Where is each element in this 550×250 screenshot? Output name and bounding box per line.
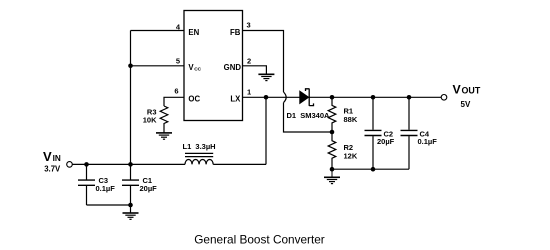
wire left vertical EN/Vcc down to VIN rail [130, 31, 132, 165]
wire EN pin4 to left vertical [131, 30, 185, 32]
svg-text:5: 5 [176, 57, 180, 66]
node junction C4 top [407, 95, 412, 100]
diode D1 triangle [300, 91, 309, 103]
wire bottom rail R2 to C2 C4 [332, 168, 409, 170]
svg-text:CC: CC [194, 66, 201, 72]
label R1 88K [344, 107, 358, 124]
diode D1 schottky cathode bar [306, 89, 314, 106]
label R3 10K [143, 108, 157, 125]
ground below R2 [324, 169, 340, 183]
node junction R2 bottom / ground [330, 167, 335, 172]
svg-text:0.1µF: 0.1µF [96, 184, 116, 193]
node junction LX/inductor [264, 95, 269, 100]
svg-text:V: V [43, 149, 52, 164]
wire VIN rail to inductor [73, 163, 186, 165]
svg-text:IN: IN [53, 154, 61, 163]
node junction C2 top [371, 95, 376, 100]
pin name Vcc [188, 63, 201, 72]
wire bottom rail C3 to C1 [87, 204, 131, 206]
svg-text:L1 3.3µH: L1 3.3µH [183, 142, 216, 151]
svg-text:OUT: OUT [462, 86, 481, 96]
wire FB pin3 to divider [243, 31, 284, 93]
svg-text:V: V [453, 83, 462, 97]
svg-text:6: 6 [174, 87, 178, 96]
terminal VOUT [441, 95, 447, 101]
terminal VIN [67, 162, 73, 168]
wire LX node down to inductor [265, 97, 267, 164]
resistor R2 [328, 132, 336, 169]
svg-text:0.1µF: 0.1µF [418, 137, 438, 146]
capacitor C4 [401, 97, 418, 169]
node junction R1/R2 midpoint [330, 130, 335, 135]
svg-text:General Boost Converter: General Boost Converter [194, 233, 325, 247]
wire OC pin6 to R3 [164, 97, 184, 106]
node junction C1 bottom / ground [128, 203, 133, 208]
label C1 20uF [140, 176, 158, 193]
svg-text:1: 1 [247, 88, 251, 97]
capacitor C2 [365, 97, 382, 169]
label VOUT 5V [453, 83, 481, 110]
node junction R1 top [330, 95, 335, 100]
resistor R3 [160, 106, 168, 133]
svg-text:5V: 5V [461, 100, 471, 109]
svg-text:12K: 12K [344, 151, 358, 160]
svg-text:OC: OC [188, 95, 200, 104]
label C4 0.1uF [418, 129, 438, 146]
wire hop over LX line [284, 92, 287, 103]
resistor R1 [328, 97, 336, 132]
svg-text:20µF: 20µF [140, 184, 158, 193]
wire inductor to LX vertical [213, 163, 266, 165]
wire LX pin1 to diode anode [243, 96, 300, 98]
ground at GND pin [258, 74, 274, 80]
wire GND pin2 [243, 66, 267, 74]
svg-text:LX: LX [230, 95, 241, 104]
wire FB down to R1/R2 midpoint [284, 103, 333, 132]
svg-text:EN: EN [188, 28, 199, 37]
label C2 20uF [377, 129, 395, 146]
node junction C1 top [128, 162, 133, 167]
svg-text:GND: GND [224, 63, 242, 72]
wire Vcc pin5 [131, 65, 185, 67]
label C3 0.1uF [96, 176, 116, 193]
svg-text:D1 SM340A: D1 SM340A [287, 111, 331, 120]
svg-text:88K: 88K [344, 115, 358, 124]
capacitor C3 [78, 164, 95, 205]
inductor L1 [185, 153, 213, 164]
wire diode cathode to VOUT terminal [309, 96, 441, 98]
svg-text:2: 2 [247, 57, 251, 66]
svg-text:10K: 10K [143, 116, 157, 125]
svg-text:20µF: 20µF [377, 137, 395, 146]
label VIN 3.7V [43, 149, 61, 174]
svg-text:3.7V: 3.7V [44, 165, 61, 174]
label R2 12K [344, 143, 358, 160]
node junction C2 bottom [371, 167, 376, 172]
node junction C3 top [84, 162, 89, 167]
svg-text:3: 3 [247, 21, 251, 30]
svg-text:FB: FB [230, 28, 241, 37]
ground below C1 [123, 205, 139, 219]
ground below R3 [156, 133, 172, 139]
capacitor C1 [122, 164, 139, 205]
node junction Vcc/EN [128, 64, 133, 69]
IC U1 body [184, 11, 243, 121]
